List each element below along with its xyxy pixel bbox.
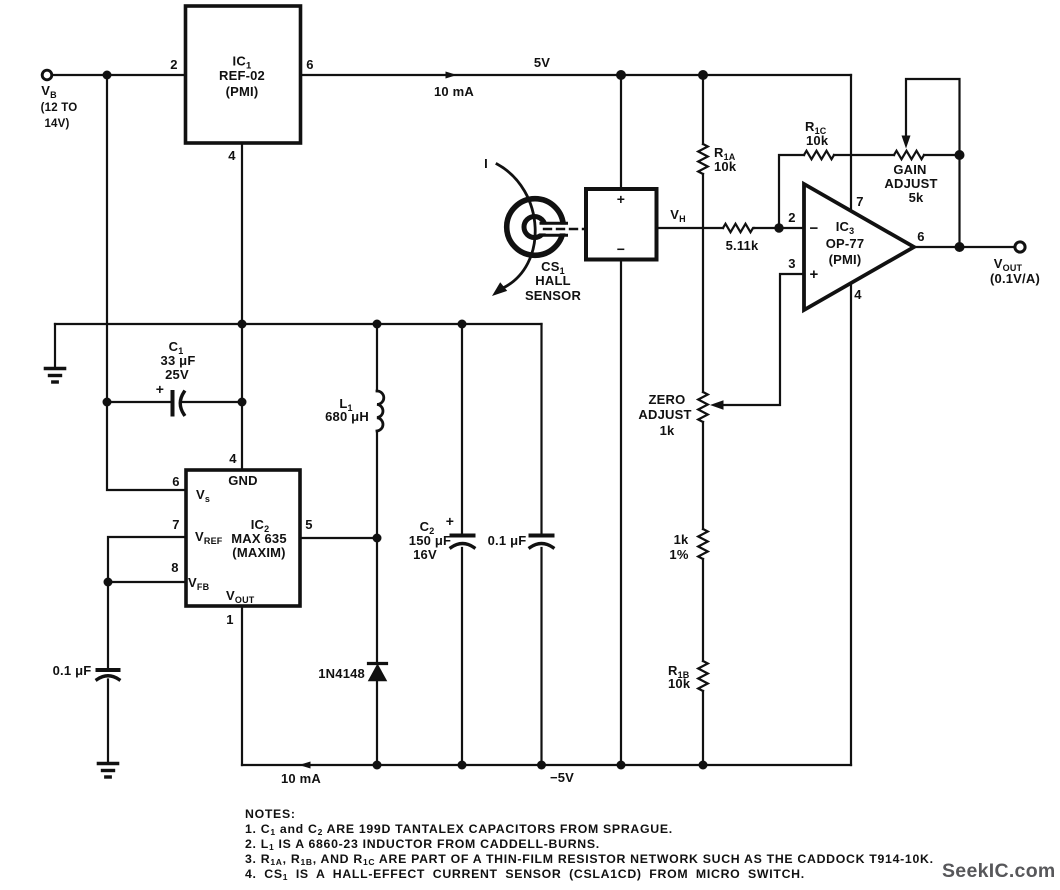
svg-text:10k: 10k — [714, 159, 737, 174]
svg-text:+: + — [156, 381, 164, 397]
svg-text:OP-77: OP-77 — [826, 236, 865, 251]
wire divider column R1A top — [702, 75, 704, 144]
svg-text:(PMI): (PMI) — [829, 252, 862, 267]
svg-text:10 mA: 10 mA — [434, 84, 474, 99]
notes block — [245, 807, 934, 882]
svg-text:1N4148: 1N4148 — [318, 666, 365, 681]
wire diode to -5V rail — [376, 681, 378, 766]
svg-text:IC3: IC3 — [836, 219, 855, 236]
svg-text:1k: 1k — [674, 532, 689, 547]
svg-text:1: 1 — [226, 612, 233, 627]
resistor 5.11k — [723, 224, 754, 232]
svg-text:(PMI): (PMI) — [226, 84, 259, 99]
svg-text:VFB: VFB — [188, 575, 210, 592]
node rail hall — [617, 761, 626, 770]
wire R1B to -5V rail — [702, 691, 704, 765]
ground symbol left — [46, 369, 65, 383]
capacitor C1 33uF plates — [171, 392, 175, 415]
watermark — [942, 860, 1056, 883]
wire feedback node up to R1C — [779, 155, 804, 228]
svg-text:VH: VH — [670, 207, 686, 224]
wire IC2 pin 1 down — [241, 606, 243, 765]
op-amp U IC3 triangle — [804, 184, 914, 310]
node 5V hall feed — [616, 70, 626, 80]
IC1 REF-02 box — [186, 6, 301, 143]
node 5V R1A feed — [698, 70, 708, 80]
terminal VB — [42, 70, 52, 80]
diode 1N4148 body — [369, 665, 386, 681]
wire C2 column top — [461, 324, 463, 534]
svg-text:GND: GND — [228, 473, 258, 488]
svg-text:6: 6 — [172, 474, 179, 489]
wire L1 bottom to pin5 node — [376, 431, 378, 538]
wire IC2 pin 5 to L1 node — [300, 537, 377, 539]
inductor L1 680uH — [377, 391, 384, 431]
wire R1C to gain pot — [834, 154, 894, 156]
wire pin5 node to diode — [376, 538, 378, 663]
wire VH to 5.11k — [657, 227, 724, 229]
wire 0.1uF column top — [540, 324, 542, 534]
dashed link toroid to hall box — [544, 228, 584, 230]
wire VB to IC1 pin 2 — [52, 74, 186, 76]
node gain pot right — [955, 150, 965, 160]
node C1 right — [238, 398, 247, 407]
svg-text:−5V: −5V — [550, 770, 574, 785]
svg-text:6: 6 — [917, 229, 924, 244]
diode 1N4148 cathode bar — [369, 662, 387, 665]
wire 5.11k to op-amp pin 2 — [754, 227, 804, 229]
svg-text:8: 8 — [171, 560, 178, 575]
wire C1 left lead — [107, 401, 171, 403]
node gnd rail L1 — [373, 320, 382, 329]
node rail diode — [373, 761, 382, 770]
capacitor 0.1uF (left) plates — [98, 668, 119, 672]
svg-text:10 mA: 10 mA — [281, 771, 321, 786]
svg-text:0.1 μF: 0.1 μF — [488, 533, 527, 548]
svg-text:7: 7 — [172, 517, 179, 532]
svg-text:4: 4 — [229, 451, 237, 466]
svg-text:2: 2 — [170, 57, 177, 72]
node rail R1B — [699, 761, 708, 770]
wire VREF node to 0.1uF cap — [107, 582, 109, 669]
wire 0.1uF column bottom — [540, 548, 542, 765]
resistor R1A 10k — [698, 144, 708, 174]
svg-text:(12 TO: (12 TO — [41, 102, 78, 114]
svg-text:−: − — [617, 241, 625, 257]
svg-text:REF-02: REF-02 — [219, 68, 265, 83]
wire IC2 VREF loop — [108, 537, 186, 582]
arrow zero adjust wiper — [710, 400, 724, 410]
svg-text:25V: 25V — [165, 367, 189, 382]
node output — [955, 242, 965, 252]
wire IC2 VFB lead — [108, 581, 186, 583]
wire VB vertical feed to IC2 Vs — [107, 75, 186, 490]
wire output column down — [958, 155, 960, 247]
svg-text:I: I — [484, 156, 488, 171]
svg-text:−: − — [810, 220, 819, 237]
svg-text:(MAXIM): (MAXIM) — [232, 545, 285, 560]
svg-text:5.11k: 5.11k — [726, 238, 759, 253]
svg-text:+: + — [810, 266, 819, 283]
node VB junction — [103, 71, 112, 80]
arrow 10mA on -5V rail — [299, 762, 311, 769]
svg-text:7: 7 — [856, 194, 863, 209]
wire 5V rail from IC1 pin 6 — [301, 74, 852, 76]
svg-text:SENSOR: SENSOR — [525, 288, 582, 303]
wire hall box top feed — [620, 75, 622, 189]
wire 1k to R1B — [702, 559, 704, 661]
wire op-amp pin 3 to zero wiper — [719, 274, 804, 405]
wire pin 7 drop from 5V rail — [850, 75, 852, 211]
wire -5V bottom rail — [242, 764, 851, 766]
svg-text:MAX 635: MAX 635 — [231, 531, 287, 546]
wire C2 column bottom — [461, 548, 463, 765]
node rail 0.1uF — [537, 761, 546, 770]
wire ground stem left — [54, 324, 56, 367]
svg-text:33 μF: 33 μF — [161, 353, 196, 368]
svg-text:16V: 16V — [413, 547, 437, 562]
wire 0.1uF cap to ground — [107, 680, 109, 763]
node op-amp pin2 — [774, 223, 783, 232]
svg-text:(0.1V/A): (0.1V/A) — [990, 271, 1040, 286]
resistor 1k 1% — [698, 529, 708, 559]
wire gain pot to output column — [924, 154, 960, 156]
hall sensor CS1 toroid — [507, 199, 569, 256]
wire IC1 pin 4 column to IC2 GND — [241, 143, 243, 470]
IC2 MAX635 box — [186, 470, 300, 606]
arrow gain adjust wiper — [902, 136, 911, 149]
svg-text:5: 5 — [305, 517, 312, 532]
current arrow I through toroid — [497, 164, 535, 289]
node VREF-VFB — [104, 578, 113, 587]
wire op-amp output to terminal — [914, 246, 1015, 248]
svg-text:ADJUST: ADJUST — [638, 407, 691, 422]
potentiometer GAIN ADJUST 5k — [894, 151, 924, 159]
svg-text:0.1 μF: 0.1 μF — [53, 663, 92, 678]
svg-text:4: 4 — [854, 287, 862, 302]
svg-text:3: 3 — [788, 256, 795, 271]
svg-text:150 μF: 150 μF — [409, 533, 451, 548]
svg-text:HALL: HALL — [535, 273, 570, 288]
svg-text:1k: 1k — [660, 423, 675, 438]
svg-text:680 μH: 680 μH — [325, 409, 369, 424]
svg-text:5k: 5k — [909, 190, 924, 205]
svg-text:+: + — [617, 191, 625, 207]
svg-text:+: + — [446, 513, 454, 529]
node C1 left — [103, 398, 112, 407]
svg-text:ADJUST: ADJUST — [884, 176, 937, 191]
svg-text:5V: 5V — [534, 55, 550, 70]
svg-text:1%: 1% — [669, 547, 688, 562]
resistor R1C 10k — [804, 151, 834, 159]
wire C1 right lead — [183, 401, 242, 403]
svg-text:14V): 14V) — [44, 118, 69, 130]
svg-text:VB: VB — [41, 83, 57, 100]
svg-text:6: 6 — [306, 57, 313, 72]
svg-text:2: 2 — [788, 210, 795, 225]
hall element box — [586, 189, 657, 260]
potentiometer ZERO ADJUST 1k — [698, 392, 708, 422]
node L1 pin5 — [373, 534, 382, 543]
wire hall box bottom to -5V rail — [620, 260, 622, 766]
svg-text:VOUT: VOUT — [226, 588, 255, 605]
capacitor 0.1uF (right) plates — [531, 534, 553, 538]
resistor R1B 10k — [698, 661, 708, 691]
node rail C2 — [458, 761, 467, 770]
node gnd rail C2 — [458, 320, 467, 329]
svg-text:4: 4 — [228, 148, 236, 163]
svg-text:VREF: VREF — [195, 529, 223, 546]
wire ground rail — [55, 323, 542, 325]
wire gain wiper loop — [906, 79, 960, 155]
svg-text:GAIN: GAIN — [893, 162, 926, 177]
arrow 10mA on 5V rail — [446, 72, 458, 79]
svg-text:10k: 10k — [806, 133, 829, 148]
wire zero pot to 1k — [702, 422, 704, 529]
wire R1A to zero pot — [702, 174, 704, 392]
svg-text:ZERO: ZERO — [649, 392, 686, 407]
svg-text:10k: 10k — [668, 676, 691, 691]
svg-text:Vs: Vs — [196, 487, 210, 504]
wire op-amp pin 4 down to -5V rail — [850, 284, 852, 766]
node gnd rail IC column — [238, 320, 247, 329]
capacitor C2 150uF plates — [452, 534, 474, 538]
terminal VOUT — [1015, 242, 1025, 252]
ground symbol bottom left — [99, 764, 118, 778]
wire L1 column top — [376, 324, 378, 391]
